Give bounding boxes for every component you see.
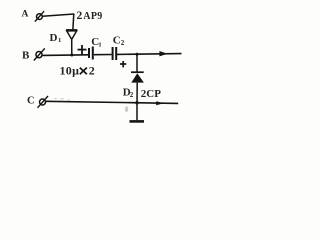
label C1 bbox=[91, 36, 101, 49]
svg-text:1: 1 bbox=[98, 41, 101, 48]
label 2AP9 bbox=[77, 10, 103, 22]
node C terminal bbox=[38, 96, 49, 108]
label D1 bbox=[50, 32, 62, 44]
arrow on B line bbox=[159, 51, 167, 56]
svg-text:10μ: 10μ bbox=[60, 64, 80, 78]
wire B line segment 3 bbox=[117, 53, 182, 56]
diode D1 (cathode bar on top, hollow triangle apex down) bbox=[66, 30, 77, 55]
svg-text:AP9: AP9 bbox=[83, 11, 102, 22]
wire C line bbox=[46, 101, 179, 103]
svg-text:C: C bbox=[27, 96, 35, 107]
junction D2 / C line bbox=[135, 101, 138, 104]
wire B line segment 2 bbox=[94, 54, 112, 56]
scan specks above C line bbox=[54, 98, 70, 100]
plus polarity of C1 bbox=[78, 45, 87, 55]
wire to ground bbox=[136, 103, 138, 120]
svg-text:2: 2 bbox=[121, 39, 125, 47]
capacitor C2 bbox=[113, 47, 117, 60]
wire D2 top bbox=[136, 54, 138, 72]
label D2 bbox=[123, 87, 134, 99]
svg-text:C: C bbox=[113, 34, 121, 46]
wire B line segment 1 bbox=[42, 54, 88, 57]
label C2 bbox=[113, 34, 125, 47]
svg-text:D: D bbox=[50, 32, 58, 44]
wire corner down to D1 bbox=[72, 14, 75, 30]
svg-text:1: 1 bbox=[58, 37, 61, 44]
svg-text:2: 2 bbox=[77, 10, 83, 22]
svg-text:A: A bbox=[22, 10, 29, 20]
node A terminal bbox=[35, 11, 44, 21]
svg-text:2: 2 bbox=[130, 91, 134, 99]
ground bar bbox=[130, 120, 145, 123]
arrow on C line bbox=[156, 101, 164, 105]
junction D1 / B line bbox=[70, 54, 73, 57]
junction D2 / B line bbox=[136, 53, 139, 56]
svg-text:2CP: 2CP bbox=[141, 88, 161, 100]
scan smudge near ground stem bbox=[125, 106, 128, 112]
wire A to corner bbox=[42, 14, 74, 16]
svg-text:2: 2 bbox=[89, 64, 95, 78]
capacitor C1 bbox=[89, 47, 93, 60]
label 10u x2 bbox=[60, 64, 95, 78]
diode D2 (cathode bar, filled triangle apex up) bbox=[131, 72, 144, 82]
plus polarity of C2 bbox=[120, 61, 126, 67]
node B terminal bbox=[34, 48, 45, 60]
svg-text:B: B bbox=[22, 49, 30, 61]
wire D2 bottom bbox=[136, 83, 138, 103]
